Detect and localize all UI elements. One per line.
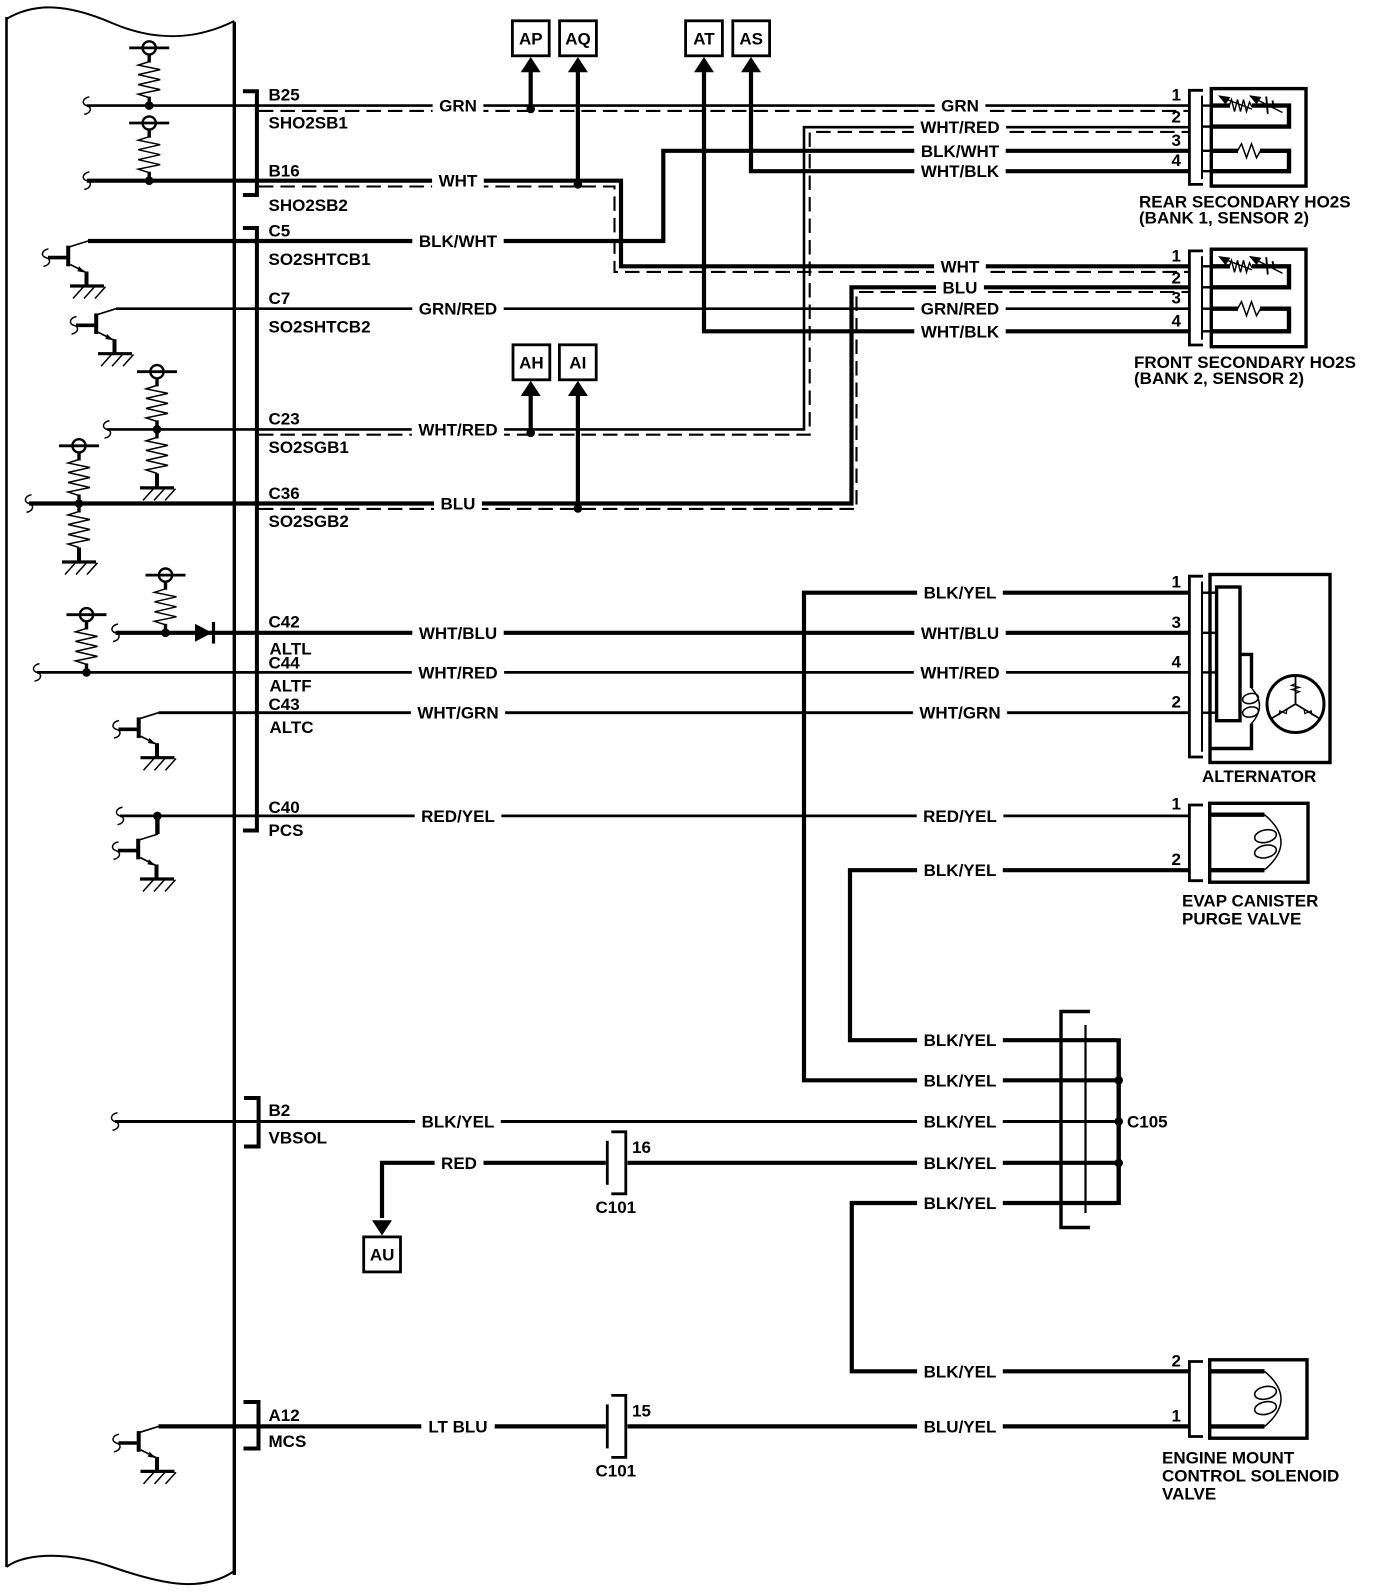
connector ref box AS xyxy=(733,21,770,56)
component connector bracket rear HO2S xyxy=(1189,90,1203,184)
wire colour label RED (left) xyxy=(435,1152,484,1173)
svg-text:SHO2SB1: SHO2SB1 xyxy=(269,114,348,133)
wire C44 WHT/RED to alternator pin 4 xyxy=(37,671,1190,674)
wire to AT with arrow xyxy=(704,70,1190,331)
pull-down resistor from C23 line to ground xyxy=(140,429,176,500)
wire colour label GRN/RED (left) xyxy=(412,298,503,319)
svg-text:B2: B2 xyxy=(269,1101,291,1120)
wire colour label BLK/YEL (right) xyxy=(917,1152,1003,1173)
svg-text:PURGE VALVE: PURGE VALVE xyxy=(1182,910,1301,929)
wire break at C40 xyxy=(116,807,123,825)
svg-text:BLK/YEL: BLK/YEL xyxy=(422,1113,495,1132)
transistor Q2 (SO2SHTCB2 driver) xyxy=(70,309,133,367)
svg-text:BLU: BLU xyxy=(441,495,476,514)
svg-text:GRN: GRN xyxy=(941,97,979,116)
svg-text:ALTF: ALTF xyxy=(270,677,312,696)
svg-text:4: 4 xyxy=(1172,311,1182,330)
wire shield (dashed) GRN shield xyxy=(259,110,1190,112)
svg-text:1: 1 xyxy=(1172,86,1181,105)
pull-up resistor to B16 line xyxy=(129,116,169,185)
wire BLK/YEL from C101 16 to C105 xyxy=(628,1161,1118,1165)
svg-text:GRN/RED: GRN/RED xyxy=(921,300,999,319)
wire break at B16 xyxy=(83,172,90,190)
wire break at C44 xyxy=(33,664,40,682)
svg-text:SO2SHTCB1: SO2SHTCB1 xyxy=(269,250,371,269)
svg-text:BLK/YEL: BLK/YEL xyxy=(924,1113,997,1132)
wire colour label GRN (left) xyxy=(433,95,484,116)
EVAP valve coil xyxy=(1210,815,1265,871)
svg-text:AT: AT xyxy=(693,29,715,48)
junction AH tap on WHT/RED xyxy=(526,429,535,438)
svg-text:SO2SHTCB2: SO2SHTCB2 xyxy=(269,318,371,337)
svg-text:WHT: WHT xyxy=(439,172,478,191)
wire colour label WHT/RED (left) xyxy=(412,419,504,440)
svg-text:BLK/YEL: BLK/YEL xyxy=(924,1071,997,1090)
svg-text:15: 15 xyxy=(632,1401,651,1420)
wire colour label BLU (left) xyxy=(434,493,482,514)
svg-text:AH: AH xyxy=(519,353,544,372)
svg-text:C5: C5 xyxy=(269,222,291,241)
svg-text:WHT/BLK: WHT/BLK xyxy=(921,322,1000,341)
wire A12 LT BLU to C101 15 xyxy=(159,1424,606,1428)
ECM connector A bracket (pin A12) xyxy=(244,1402,259,1449)
svg-text:2: 2 xyxy=(1172,693,1181,712)
wire BLK/YEL EVAP pin 2 to C105 xyxy=(850,870,1190,1040)
wire to AH with arrow xyxy=(529,394,533,430)
wire to AS with arrow xyxy=(751,70,1190,171)
svg-text:3: 3 xyxy=(1172,131,1181,150)
connector ref box AH xyxy=(513,345,550,380)
svg-text:BLK/YEL: BLK/YEL xyxy=(924,584,997,603)
svg-text:RED/YEL: RED/YEL xyxy=(923,807,997,826)
svg-text:C105: C105 xyxy=(1127,1113,1168,1132)
wire shield (dashed) BLU shield xyxy=(259,292,1190,509)
wire C40 RED/YEL to EVAP purge valve pin 1 xyxy=(120,815,1190,818)
front HO2S heater xyxy=(1212,307,1238,311)
svg-text:WHT/RED: WHT/RED xyxy=(418,663,497,682)
svg-text:2: 2 xyxy=(1172,108,1181,127)
ECM/PCM module top torn edge xyxy=(7,7,235,36)
wire colour label WHT/RED (left) xyxy=(412,662,504,683)
wire colour label WHT/RED (right) xyxy=(914,117,1006,138)
connector ref box AQ xyxy=(560,21,597,56)
svg-text:SHO2SB2: SHO2SB2 xyxy=(269,196,348,215)
diode D1 in C42 line xyxy=(195,624,212,642)
wire colour label GRN/RED (right) xyxy=(914,298,1005,319)
wire break at C36 xyxy=(25,495,32,513)
junction C40 collector junction xyxy=(153,812,162,821)
wire to AQ with arrow xyxy=(576,70,580,182)
svg-text:LT BLU: LT BLU xyxy=(428,1417,487,1436)
svg-text:2: 2 xyxy=(1172,1351,1181,1370)
wire colour label WHT/BLU (left) xyxy=(412,622,503,643)
transistor Q5 (MCS driver) xyxy=(113,1426,176,1484)
wire break at B25 xyxy=(83,97,90,115)
svg-text:(BANK 1, SENSOR 2): (BANK 1, SENSOR 2) xyxy=(1139,209,1309,228)
svg-text:ALTERNATOR: ALTERNATOR xyxy=(1202,767,1316,786)
svg-text:WHT/GRN: WHT/GRN xyxy=(417,704,498,723)
svg-text:BLU/YEL: BLU/YEL xyxy=(924,1417,997,1436)
svg-text:(BANK 2, SENSOR 2): (BANK 2, SENSOR 2) xyxy=(1134,369,1304,388)
svg-text:EVAP CANISTER: EVAP CANISTER xyxy=(1182,892,1318,911)
svg-text:B16: B16 xyxy=(269,162,300,181)
wire colour label WHT/GRN (right) xyxy=(913,702,1007,723)
wire colour label WHT/BLK (right) xyxy=(914,321,1005,342)
svg-text:BLK/YEL: BLK/YEL xyxy=(924,1031,997,1050)
svg-text:C42: C42 xyxy=(269,613,300,632)
component connector bracket alternator xyxy=(1189,576,1203,757)
wire colour label WHT/BLK (right) xyxy=(914,161,1005,182)
connector ref box AP xyxy=(512,21,549,56)
svg-text:1: 1 xyxy=(1172,573,1181,592)
svg-text:4: 4 xyxy=(1172,652,1182,671)
wire colour label WHT (right) xyxy=(934,256,986,277)
svg-text:2: 2 xyxy=(1172,850,1181,869)
svg-text:WHT/RED: WHT/RED xyxy=(418,420,497,439)
junction connector C105 xyxy=(1061,1012,1090,1228)
ECM connector B bracket (pin B2) xyxy=(244,1098,259,1147)
wire C23 WHT/RED to rear HO2S pin 2 xyxy=(107,127,1190,429)
svg-text:C101: C101 xyxy=(596,1461,637,1480)
svg-text:4: 4 xyxy=(1172,151,1182,170)
wire colour label BLU/YEL (right) xyxy=(917,1416,1003,1437)
pull-up resistor to C36 line xyxy=(59,439,99,508)
ECM connector C bracket (pins C5..C40) xyxy=(243,228,257,831)
svg-text:AI: AI xyxy=(569,353,586,372)
alternator field winding circuit xyxy=(1212,654,1252,748)
svg-text:BLK/WHT: BLK/WHT xyxy=(921,142,1000,161)
svg-text:C23: C23 xyxy=(269,410,300,429)
engine mount valve coil xyxy=(1210,1371,1265,1426)
wire C36 BLU to front HO2S pin 2 xyxy=(29,287,1190,503)
rear HO2S heater xyxy=(1212,149,1238,153)
wire break at C23 xyxy=(103,421,110,439)
front HO2S body xyxy=(1211,249,1306,347)
svg-text:C40: C40 xyxy=(269,798,300,817)
wire break at C42 xyxy=(112,624,119,642)
wire colour label BLK/YEL (right) xyxy=(917,1111,1003,1132)
svg-text:WHT/BLU: WHT/BLU xyxy=(419,624,497,643)
svg-text:VALVE: VALVE xyxy=(1162,1485,1216,1504)
svg-text:1: 1 xyxy=(1172,795,1181,814)
transistor Q4 (PCS driver) collector link xyxy=(155,816,159,834)
svg-text:C44: C44 xyxy=(269,654,301,673)
svg-text:BLK/YEL: BLK/YEL xyxy=(924,1362,997,1381)
svg-text:SO2SGB2: SO2SGB2 xyxy=(269,512,349,531)
svg-text:AQ: AQ xyxy=(565,29,591,48)
svg-text:C7: C7 xyxy=(269,289,291,308)
junction C105 bus xyxy=(1114,1159,1123,1168)
svg-text:WHT/BLU: WHT/BLU xyxy=(921,624,999,643)
wire colour label BLK/YEL (right) xyxy=(917,582,1003,603)
wire to AP with arrow xyxy=(529,70,533,105)
pull-up resistor to C42 line xyxy=(146,569,186,638)
wire colour label BLU (right) xyxy=(936,277,984,298)
svg-text:CONTROL SOLENOID: CONTROL SOLENOID xyxy=(1162,1467,1339,1486)
alternator pin stubs xyxy=(1201,592,1217,594)
wire BLK/YEL alternator pin1 to C105 xyxy=(804,593,1190,1081)
inline connector C101 cavity 15 xyxy=(606,1404,609,1448)
wire to AI with arrow xyxy=(576,394,580,506)
svg-text:ALTC: ALTC xyxy=(270,718,314,737)
svg-text:BLK/YEL: BLK/YEL xyxy=(924,1194,997,1213)
junction AQ tap on WHT xyxy=(574,180,583,189)
wire BLK/YEL C105 to engine mount pin 2 xyxy=(852,1203,1190,1371)
alternator field coil xyxy=(1242,688,1260,724)
svg-text:PCS: PCS xyxy=(269,821,304,840)
svg-text:MCS: MCS xyxy=(269,1432,307,1451)
connector ref box AT xyxy=(686,21,723,56)
svg-text:WHT/RED: WHT/RED xyxy=(920,118,999,137)
pull-up resistor to C44 line xyxy=(67,608,107,677)
C105 internal bus xyxy=(1116,1038,1120,1205)
svg-text:1: 1 xyxy=(1172,1406,1181,1425)
component connector bracket EVAP valve xyxy=(1189,805,1203,881)
alternator regulator xyxy=(1217,587,1240,721)
inline connector C101 cavity 16 xyxy=(606,1141,609,1185)
wire colour label BLK/YEL (left) xyxy=(415,1111,501,1132)
wire colour label BLK/YEL (right) xyxy=(917,1030,1003,1051)
ECM/PCM module bottom torn edge xyxy=(7,1556,235,1584)
svg-text:AP: AP xyxy=(519,29,543,48)
pull-up resistor to C23 line xyxy=(137,365,177,434)
svg-text:BLU: BLU xyxy=(943,278,978,297)
junction C105 bus xyxy=(1114,1117,1123,1126)
svg-text:WHT/BLK: WHT/BLK xyxy=(921,162,1000,181)
connector ref box AI xyxy=(559,345,596,380)
wire C42 WHT/BLU to alternator pin 3 xyxy=(116,631,1191,635)
ECM/PCM module right edge xyxy=(233,22,236,1575)
svg-text:RED/YEL: RED/YEL xyxy=(421,807,495,826)
transistor Q1 (SO2SHTCB1 driver) xyxy=(42,241,105,299)
wire C7 GRN/RED to front HO2S pin 3 xyxy=(116,307,1190,310)
svg-text:A12: A12 xyxy=(269,1406,300,1425)
arrow into AU xyxy=(372,1220,392,1235)
svg-text:C101: C101 xyxy=(596,1198,637,1217)
svg-text:BLK/WHT: BLK/WHT xyxy=(419,232,498,251)
wire B2 BLK/YEL to C105 xyxy=(115,1120,1117,1123)
wire colour label GRN (right) xyxy=(935,95,986,116)
junction AI tap on BLU xyxy=(574,504,583,513)
wire colour label BLK/WHT (left) xyxy=(412,231,503,252)
svg-text:3: 3 xyxy=(1172,289,1181,308)
component connector bracket engine mount valve xyxy=(1189,1362,1203,1437)
wire colour label WHT/BLU (right) xyxy=(914,622,1005,643)
junction AP tap on GRN xyxy=(526,105,535,114)
rear HO2S body xyxy=(1211,89,1306,187)
connector ref box AU xyxy=(364,1237,401,1272)
pull-up resistor to B25 line xyxy=(129,41,169,110)
wire colour label RED/YEL (left) xyxy=(415,805,502,826)
component connector bracket front HO2S xyxy=(1189,251,1203,345)
svg-text:B25: B25 xyxy=(269,86,300,105)
svg-text:C43: C43 xyxy=(269,695,300,714)
alternator stator (3-phase) xyxy=(1267,676,1324,733)
wire colour label WHT/GRN (left) xyxy=(411,702,505,723)
svg-text:1: 1 xyxy=(1172,246,1181,265)
wire colour label RED/YEL (right) xyxy=(917,805,1004,826)
svg-text:VBSOL: VBSOL xyxy=(269,1129,328,1148)
svg-text:WHT: WHT xyxy=(941,257,980,276)
wire RED from C101 16 to AU xyxy=(382,1163,606,1218)
wire colour label WHT/RED (right) xyxy=(914,662,1006,683)
svg-text:AU: AU xyxy=(370,1246,395,1265)
svg-text:GRN/RED: GRN/RED xyxy=(419,300,497,319)
svg-text:WHT/GRN: WHT/GRN xyxy=(919,704,1000,723)
wire colour label WHT (left) xyxy=(432,170,484,191)
wire shield (dashed) WHT/RED shield xyxy=(259,132,1190,435)
wire colour label BLK/YEL (right) xyxy=(917,860,1003,881)
front HO2S sensing element xyxy=(1212,266,1289,287)
wire C5 BLK/WHT to rear HO2S pin 3 xyxy=(88,151,1190,241)
svg-text:2: 2 xyxy=(1172,268,1181,287)
wire C43 WHT/GRN to alternator pin 2 xyxy=(159,711,1191,714)
wire break at B2 xyxy=(111,1113,118,1131)
wire shield (dashed) WHT shield xyxy=(259,187,1190,272)
rear HO2S sensing element xyxy=(1212,106,1289,127)
transistor Q4 (PCS driver) xyxy=(112,834,175,892)
svg-text:RED: RED xyxy=(441,1154,477,1173)
svg-text:C36: C36 xyxy=(269,484,300,503)
svg-text:BLK/YEL: BLK/YEL xyxy=(924,861,997,880)
ECM/PCM module left edge xyxy=(5,17,8,1567)
svg-text:16: 16 xyxy=(632,1138,651,1157)
wire colour label BLK/YEL (right) xyxy=(917,1070,1003,1091)
svg-text:WHT/RED: WHT/RED xyxy=(920,663,999,682)
svg-text:3: 3 xyxy=(1172,613,1181,632)
wire B25 GRN to rear HO2S pin 1 xyxy=(87,104,1190,107)
ECM connector B bracket (pins B25,B16) xyxy=(243,91,257,195)
wire colour label BLK/YEL (right) xyxy=(917,1193,1003,1214)
pull-down resistor from C36 line to ground xyxy=(62,504,98,575)
wire colour label BLK/WHT (right) xyxy=(914,140,1005,161)
svg-text:ENGINE MOUNT: ENGINE MOUNT xyxy=(1162,1449,1295,1468)
svg-text:AS: AS xyxy=(739,29,763,48)
wire colour label BLK/YEL (right) xyxy=(917,1361,1003,1382)
wire colour label LT BLU (left) xyxy=(421,1416,494,1437)
svg-text:SO2SGB1: SO2SGB1 xyxy=(269,438,349,457)
svg-text:GRN: GRN xyxy=(439,97,477,116)
junction C105 bus xyxy=(1114,1076,1123,1085)
wire BLU/YEL from C101 15 to engine mount pin 1 xyxy=(628,1424,1191,1428)
transistor Q3 (ALTC driver) xyxy=(113,713,176,771)
svg-text:BLK/YEL: BLK/YEL xyxy=(924,1154,997,1173)
wire B16 WHT to front HO2S pin 1 xyxy=(87,181,1190,267)
